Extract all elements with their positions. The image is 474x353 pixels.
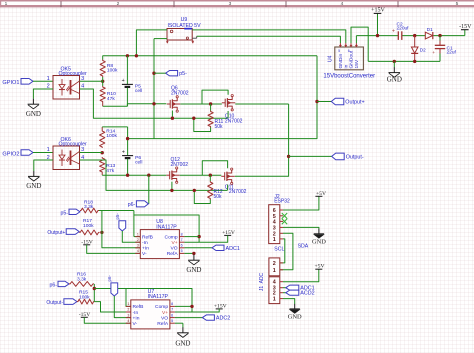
wire Output- riser <box>235 104 289 176</box>
svg-text:Output+: Output+ <box>345 100 364 106</box>
junction R11 top <box>209 102 212 105</box>
svg-text:Output+: Output+ <box>47 230 65 236</box>
wire J2 pin3 to gnd <box>283 227 319 229</box>
wire gate line2 Q12 to Q11 <box>180 174 222 176</box>
wire OK6 pin2 to gnd <box>34 160 53 171</box>
net port ADC2 U7 <box>202 315 230 322</box>
wire R18 to RefB <box>99 211 140 237</box>
svg-text:5: 5 <box>456 1 459 7</box>
junction R17 R18 tie <box>100 231 103 234</box>
svg-text:1: 1 <box>5 1 8 7</box>
connector J1 ADC <box>259 258 283 304</box>
junction R16 R15 <box>93 287 96 290</box>
wire U8 RefA gnd <box>184 253 194 255</box>
svg-text:-In: -In <box>133 310 139 316</box>
svg-text:ADC2: ADC2 <box>216 316 230 322</box>
svg-text:U4: U4 <box>328 55 334 62</box>
svg-text:INA117P: INA117P <box>156 224 177 230</box>
svg-text:15V: 15V <box>354 59 360 68</box>
svg-text:2: 2 <box>137 238 139 242</box>
junction Q12 source <box>170 189 173 192</box>
power flag +5V J2 <box>315 191 326 197</box>
svg-text:J1 ADC: J1 ADC <box>259 272 265 291</box>
battery P5 <box>122 56 143 107</box>
capacitor C2 <box>392 21 409 40</box>
wire R15 to -In <box>95 302 131 312</box>
svg-text:VO: VO <box>161 315 168 321</box>
svg-text:cell: cell <box>135 88 142 94</box>
net port p6- rotated <box>107 275 131 318</box>
resistor R14 <box>100 127 118 148</box>
svg-text:3.3k: 3.3k <box>77 276 87 282</box>
wire U7 RefA gnd <box>175 323 183 327</box>
wire Q11 source down <box>227 185 229 191</box>
svg-text:4: 4 <box>341 1 344 7</box>
wire U7 VO to ADC2 <box>175 317 203 319</box>
svg-text:2: 2 <box>127 308 129 312</box>
ground U7 <box>175 327 190 347</box>
wire Q10 source down <box>227 111 229 118</box>
svg-text:5: 5 <box>181 249 183 253</box>
wire R16 R15 tie <box>93 284 95 302</box>
net port Output+ right <box>317 98 365 105</box>
svg-text:VO: VO <box>171 246 178 252</box>
junction R12 top <box>209 174 212 177</box>
svg-text:1: 1 <box>273 297 276 303</box>
net port p5- top <box>154 71 187 78</box>
junction gnd rail D2 <box>413 60 416 63</box>
no-connect x pin4 <box>282 219 287 225</box>
net port GPIO2 <box>2 150 33 158</box>
svg-text:ACD2: ACD2 <box>300 291 314 297</box>
wire RefB branch U7 <box>126 289 131 307</box>
svg-text:GND: GND <box>387 76 402 84</box>
wire SCL <box>280 239 285 263</box>
net port p6- mid <box>128 201 149 208</box>
svg-text:V+: V+ <box>162 310 168 316</box>
svg-text:1: 1 <box>137 232 139 236</box>
svg-text:INA117P: INA117P <box>148 294 169 300</box>
resistor R8 <box>100 56 118 77</box>
svg-text:47k: 47k <box>106 168 114 174</box>
power flag -15V U7 <box>79 312 131 323</box>
junction R14 R13 node <box>101 151 104 154</box>
svg-text:8: 8 <box>181 232 183 236</box>
svg-text:-In: -In <box>142 240 148 246</box>
junction rail P5 stem <box>126 54 129 57</box>
svg-text:GND: GND <box>26 110 41 118</box>
svg-text:1: 1 <box>47 147 50 153</box>
wire gate line Q6 to Q10 <box>180 103 222 105</box>
wire +15V rail to C2,D1,-15V <box>356 35 464 37</box>
junction Output- node <box>287 155 290 158</box>
net port ACD2 J1 <box>286 290 315 297</box>
no-connect x pin5 <box>282 213 287 219</box>
battery P6 <box>122 127 143 175</box>
svg-text:+: + <box>122 78 125 84</box>
resistor R10 <box>100 77 116 106</box>
svg-text:RefA: RefA <box>157 321 169 327</box>
svg-text:1: 1 <box>273 268 276 274</box>
svg-text:p5-: p5- <box>179 71 187 77</box>
power flag -15V U8 <box>81 239 140 253</box>
svg-text:RefB: RefB <box>133 304 144 310</box>
junction R8 R10 node <box>101 80 104 83</box>
net port p5- lower <box>61 209 81 216</box>
ground U8 <box>186 255 201 275</box>
ground J2 <box>312 229 326 246</box>
wire Q11 drain loop <box>202 161 227 175</box>
svg-text:2N7002: 2N7002 <box>229 189 247 195</box>
junction U7 comp <box>190 305 193 308</box>
junction p5- port node <box>152 72 155 75</box>
wire gate line2 <box>102 174 166 176</box>
capacitor C1 <box>432 36 456 62</box>
svg-text:+In: +In <box>142 246 149 252</box>
svg-text:+15V: +15V <box>371 8 385 14</box>
optocoupler OK6 <box>47 137 87 170</box>
ic U8 INA117P <box>135 219 184 258</box>
svg-text:Comp: Comp <box>165 234 178 240</box>
wire J1 pin1 to gnd <box>283 299 295 304</box>
wire Q12 source down <box>171 182 173 191</box>
svg-text:V-: V- <box>133 321 138 327</box>
wire U4 GNDout loop to gnd rail <box>351 27 368 61</box>
svg-text:GPIO2: GPIO2 <box>2 151 19 157</box>
svg-text:1: 1 <box>273 237 276 243</box>
junction Q6 source <box>171 117 174 120</box>
svg-text:ISOLATED 5V: ISOLATED 5V <box>167 23 201 29</box>
diode D2 <box>411 36 426 62</box>
junction Output+ node <box>315 100 318 103</box>
wire J1 pin3 stub <box>283 287 286 289</box>
sheet border ruler <box>0 0 474 7</box>
svg-text:GND: GND <box>175 339 190 347</box>
junction p6- drop <box>147 174 150 177</box>
svg-text:2N7002: 2N7002 <box>225 119 243 125</box>
net port Output- left <box>46 299 77 306</box>
svg-text:+: + <box>432 50 435 55</box>
svg-text:GND: GND <box>186 266 201 274</box>
junction U8 RefA <box>192 252 195 255</box>
svg-text:p5-: p5- <box>61 210 69 216</box>
power flag -15V <box>459 24 472 36</box>
svg-text:5: 5 <box>171 319 173 323</box>
svg-text:100k: 100k <box>106 133 117 139</box>
junction U8 comp <box>197 235 200 238</box>
wire R10 bottom rail <box>103 105 128 107</box>
svg-text:GND: GND <box>288 313 302 320</box>
net port Output- right <box>289 153 364 160</box>
ground supply <box>387 61 402 83</box>
transistor Q12 <box>166 157 188 183</box>
svg-text:ESP32: ESP32 <box>274 199 290 205</box>
wire U9 Vin+ to rail <box>136 30 167 56</box>
resistor R18 <box>80 199 99 213</box>
ic U7 INA117P <box>126 289 175 329</box>
svg-text:8: 8 <box>171 302 173 306</box>
transistor Q10 <box>222 95 243 125</box>
net port GPIO1 <box>2 79 33 87</box>
net port ADC1 U8 <box>212 245 240 252</box>
svg-text:p5-: p5- <box>115 213 120 220</box>
svg-text:V-: V- <box>142 251 147 257</box>
svg-text:SDA: SDA <box>298 244 309 250</box>
wire OK5 pin3 to divider <box>80 80 103 82</box>
junction R11 bottom <box>192 117 195 120</box>
svg-text:in: in <box>344 64 350 68</box>
svg-text:p6-: p6- <box>107 275 112 282</box>
net port ADC1 J1 <box>286 285 315 292</box>
svg-text:Output-: Output- <box>46 300 63 306</box>
svg-text:p6-: p6- <box>128 202 136 208</box>
wire Q10 drain loop <box>202 90 228 104</box>
resistor R11 <box>194 104 224 132</box>
wire U7 loop <box>94 289 192 313</box>
wire OK5 pin2 to gnd <box>33 89 53 99</box>
svg-text:RefA: RefA <box>167 251 179 257</box>
junction p5- vertical gate line <box>152 102 155 105</box>
svg-text:GPIO1: GPIO1 <box>2 80 19 86</box>
junction P6 stem gate line <box>126 174 129 177</box>
junction R12 bottom <box>193 189 196 192</box>
svg-text:7: 7 <box>171 308 173 312</box>
svg-text:100k: 100k <box>83 223 94 229</box>
svg-text:+In: +In <box>133 315 140 321</box>
net port Output+ left <box>47 229 79 236</box>
svg-text:5: 5 <box>338 49 340 53</box>
wire U8 VO to ADC1 <box>184 247 212 249</box>
wire R17 vertical <box>102 211 140 248</box>
resistor R15 <box>77 290 95 304</box>
net port p5- rotated <box>115 213 140 243</box>
svg-text:cell: cell <box>135 160 142 166</box>
ground OK6 <box>26 171 41 190</box>
svg-text:2N7002: 2N7002 <box>171 162 189 168</box>
power flag +15V U8 <box>184 230 234 242</box>
resistor R13 <box>100 157 116 175</box>
svg-text:1: 1 <box>127 302 129 306</box>
wire SDA <box>280 233 293 269</box>
wire rail2 top <box>102 126 127 128</box>
power flag +15V <box>371 8 385 36</box>
wire U7 comp out <box>175 305 192 307</box>
svg-text:Output-: Output- <box>346 154 364 160</box>
svg-text:2N7002: 2N7002 <box>171 90 189 96</box>
wire J1 pin2 stub <box>283 292 286 294</box>
svg-text:GND: GND <box>312 238 326 245</box>
svg-text:3: 3 <box>229 1 232 7</box>
junction D2 top <box>413 34 416 37</box>
svg-text:3.3k: 3.3k <box>84 204 94 210</box>
svg-text:4: 4 <box>137 249 139 253</box>
wire Q6 source down <box>171 111 173 119</box>
wire GPIO2 to OK6 pin1 <box>33 152 53 154</box>
svg-text:Comp: Comp <box>155 304 168 310</box>
svg-text:6: 6 <box>348 49 350 53</box>
svg-text:GNDin: GNDin <box>338 54 344 69</box>
svg-text:2: 2 <box>117 1 120 7</box>
wire OK5 pin4 line <box>80 89 228 118</box>
net port p6- lower <box>50 281 70 288</box>
svg-text:RefB: RefB <box>142 234 153 240</box>
resistor R17 <box>79 218 99 235</box>
wire U9 Vin- long vertical p5- <box>154 39 167 139</box>
svg-text:GND: GND <box>26 182 41 190</box>
svg-text:47k: 47k <box>107 96 115 102</box>
wire U8 comp out <box>184 236 199 238</box>
wire J2 pin6 to +5V <box>283 196 319 210</box>
wire RefB Comp loop <box>134 215 199 242</box>
wire OK6 pin4 line <box>80 160 228 190</box>
optocoupler OK5 <box>47 66 87 99</box>
svg-text:SCL: SCL <box>274 246 284 252</box>
wire supply ground rail <box>368 60 440 62</box>
transistor Q11 <box>221 168 246 195</box>
ground OK5 <box>26 99 41 118</box>
svg-text:+: + <box>122 149 125 155</box>
wire GPIO1 to OK5 pin1 <box>33 80 53 82</box>
wire p6- drop <box>148 175 150 204</box>
svg-text:100k: 100k <box>79 294 90 300</box>
svg-text:4: 4 <box>127 319 129 323</box>
svg-text:D2: D2 <box>420 48 426 53</box>
svg-text:2: 2 <box>273 261 276 267</box>
wire main rail P5+ <box>103 55 318 57</box>
label SDA <box>298 244 309 250</box>
svg-text:15VboostConverter: 15VboostConverter <box>323 74 375 80</box>
wire U9 out- to U4 GNDin <box>197 36 341 43</box>
svg-text:GNDout: GNDout <box>349 50 355 68</box>
svg-text:+: + <box>392 28 395 34</box>
svg-text:p6-: p6- <box>50 282 58 288</box>
wire Q10 to Output- riser <box>235 103 288 105</box>
svg-text:7: 7 <box>181 238 183 242</box>
resistor R12 <box>194 175 223 203</box>
svg-text:50k: 50k <box>214 194 223 200</box>
svg-text:3: 3 <box>127 313 129 317</box>
transistor Q6 <box>167 85 189 112</box>
svg-text:6: 6 <box>181 244 183 248</box>
diode D1 <box>425 27 433 39</box>
svg-text:22uf: 22uf <box>447 50 457 56</box>
junction rail U9 wire <box>135 54 138 57</box>
junction C1 top <box>438 34 441 37</box>
wire rail down right side <box>128 56 317 139</box>
svg-text:100k: 100k <box>107 67 118 73</box>
wire J1 pin4 to +5V <box>283 269 319 282</box>
svg-text:220uf: 220uf <box>397 26 410 32</box>
ground J1 <box>288 304 302 321</box>
label SCL <box>274 246 284 252</box>
power flag +15V U7 <box>175 304 227 313</box>
junction P6 y138 line <box>126 137 129 140</box>
svg-text:V+: V+ <box>171 240 177 246</box>
svg-text:D1: D1 <box>427 27 433 32</box>
wire P5- jog to gate line <box>127 104 166 107</box>
svg-text:50k: 50k <box>215 124 224 130</box>
svg-text:ADC1: ADC1 <box>226 246 240 252</box>
junction +15V node <box>376 34 379 37</box>
svg-text:6: 6 <box>171 313 173 317</box>
power flag +5V J1 <box>315 264 325 270</box>
wire OK6 pin3 to divider <box>80 152 103 154</box>
svg-text:3: 3 <box>137 244 139 248</box>
resistor R16 <box>69 272 94 287</box>
wire U9 out+ to U4 in <box>192 30 346 43</box>
wire U4 15V up <box>355 36 357 44</box>
connector J2 ESP32 <box>269 194 290 244</box>
svg-text:-15V: -15V <box>459 24 472 30</box>
dcdc module U9 <box>166 17 201 43</box>
junction gnd rail left <box>393 60 396 63</box>
svg-text:1: 1 <box>47 76 50 82</box>
boost converter U4 <box>323 43 375 80</box>
